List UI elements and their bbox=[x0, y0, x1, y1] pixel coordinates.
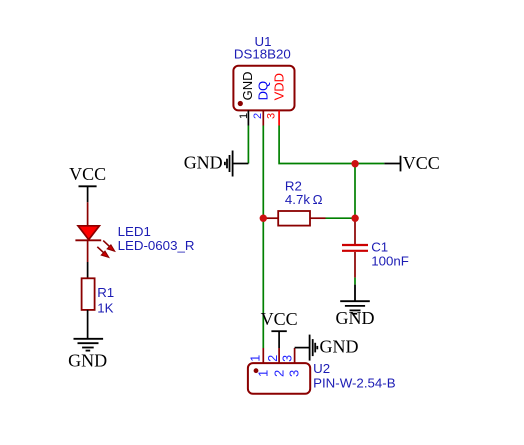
U2 pin 2 stub bbox=[278, 348, 280, 363]
LED1 emission arrow 2 bbox=[97, 247, 109, 258]
wire to GND flag bbox=[233, 163, 248, 165]
U2 pin1 marker dot bbox=[254, 368, 259, 373]
svg-text:2: 2 bbox=[271, 370, 286, 377]
ground flag (U1) bbox=[225, 151, 233, 177]
wire VDD vertical to R2/C1 bbox=[354, 164, 356, 219]
resistor R1 bbox=[82, 278, 95, 310]
svg-text:VDD: VDD bbox=[271, 73, 286, 100]
capacitor C1 bbox=[354, 218, 356, 244]
U1 pin 3 stub bbox=[278, 110, 280, 125]
svg-text:GND: GND bbox=[320, 337, 359, 357]
U1 pin 1 stub bbox=[247, 110, 249, 125]
earth ground (R1) bbox=[74, 339, 104, 351]
svg-text:GND: GND bbox=[184, 153, 223, 173]
wire C1 to ground bbox=[354, 278, 356, 285]
wire DQ net U1 pin2 down to U2 pin1 bbox=[262, 126, 264, 349]
junction VDD rail bbox=[351, 160, 358, 167]
svg-text:100nF: 100nF bbox=[371, 254, 409, 269]
svg-text:PIN-W-2.54-B: PIN-W-2.54-B bbox=[313, 376, 396, 391]
svg-text:DQ: DQ bbox=[256, 81, 271, 101]
resistor R2 bbox=[263, 217, 278, 219]
svg-text:2: 2 bbox=[252, 113, 264, 119]
svg-text:LED1: LED1 bbox=[118, 224, 151, 239]
svg-text:1: 1 bbox=[249, 355, 263, 362]
svg-text:3: 3 bbox=[287, 370, 302, 377]
svg-text:U2: U2 bbox=[313, 361, 330, 376]
wire GND net from U1 pin1 down bbox=[247, 126, 249, 164]
connector U2 bbox=[248, 363, 310, 394]
svg-text:VCC: VCC bbox=[69, 164, 106, 184]
U2 pin 3 stub bbox=[294, 348, 296, 363]
svg-text:GND: GND bbox=[336, 308, 375, 328]
U1 pin1 marker dot bbox=[238, 101, 243, 106]
svg-text:4.7k Ω: 4.7k Ω bbox=[285, 192, 323, 207]
svg-text:C1: C1 bbox=[371, 239, 388, 254]
svg-text:GND: GND bbox=[240, 72, 255, 101]
U1 pin 2 stub bbox=[262, 110, 264, 125]
wire LED to R1 bbox=[87, 262, 89, 278]
wire VDD net U1 pin3 down and right bbox=[279, 126, 384, 164]
svg-text:GND: GND bbox=[68, 350, 107, 370]
junction R2 right bbox=[351, 215, 358, 222]
wire U2 pin3 to GND flag bbox=[295, 347, 310, 349]
svg-text:VCC: VCC bbox=[261, 309, 298, 329]
LED LED1 bbox=[87, 202, 89, 226]
svg-text:1K: 1K bbox=[97, 300, 113, 315]
svg-text:VCC: VCC bbox=[403, 153, 440, 173]
junction R2 left bbox=[260, 215, 267, 222]
wire R2 right to junction bbox=[326, 217, 356, 219]
LED1 emission arrow 1 bbox=[103, 241, 115, 252]
svg-text:3: 3 bbox=[265, 113, 277, 119]
ground flag (U2) bbox=[310, 335, 318, 361]
svg-text:DS18B20: DS18B20 bbox=[234, 46, 291, 61]
svg-text:1: 1 bbox=[255, 370, 270, 377]
VCC flag (right) bbox=[384, 163, 400, 165]
svg-text:2: 2 bbox=[266, 355, 280, 362]
svg-text:3: 3 bbox=[281, 355, 295, 362]
svg-text:R1: R1 bbox=[97, 285, 114, 300]
earth ground (C1) bbox=[340, 285, 370, 314]
wire R1 to ground bbox=[87, 310, 89, 339]
U2 pin 1 stub bbox=[262, 348, 264, 363]
svg-text:LED-0603_R: LED-0603_R bbox=[118, 238, 195, 253]
op-amp U1 bbox=[233, 66, 294, 111]
